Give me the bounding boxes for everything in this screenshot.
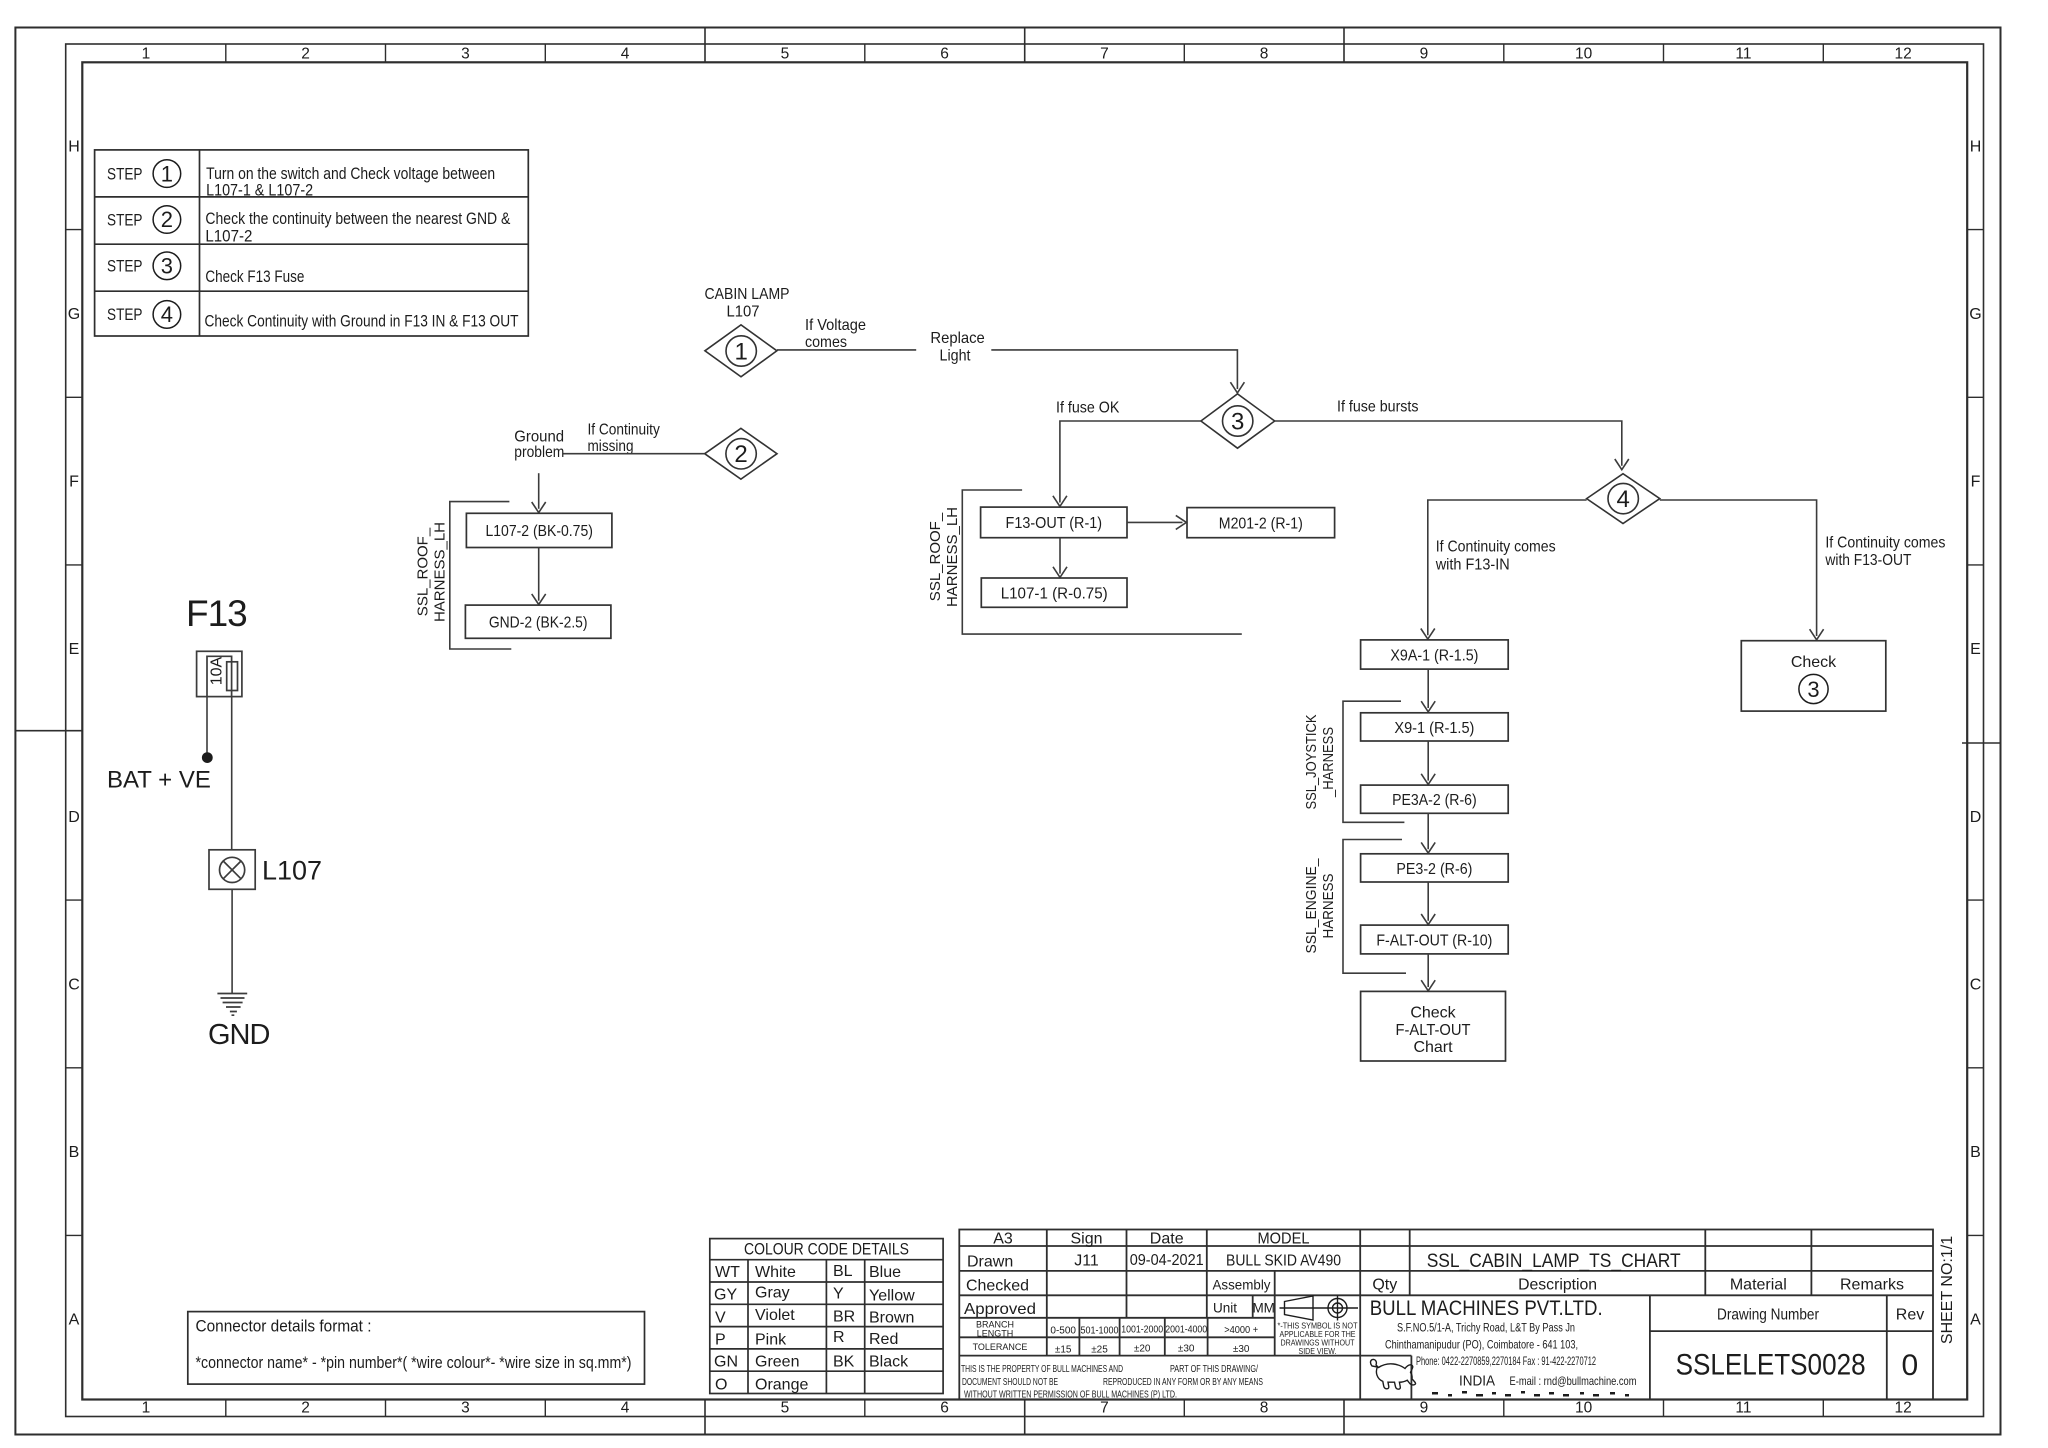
svg-text:BR: BR — [833, 1308, 855, 1325]
arrowhead into F-ALT-OUT — [1421, 914, 1435, 925]
property note text — [961, 1364, 1263, 1401]
title block header texts — [993, 1231, 1309, 1248]
arrowhead into Check box — [1810, 629, 1824, 640]
svg-text:2001-4000: 2001-4000 — [1165, 1325, 1207, 1336]
label Replace Light — [930, 330, 984, 364]
svg-text:TOLERANCE: TOLERANCE — [973, 1342, 1028, 1352]
svg-text:2: 2 — [301, 46, 310, 63]
svg-text:L107: L107 — [727, 304, 760, 321]
title block grid — [959, 1230, 1933, 1400]
step 1 description — [206, 165, 495, 199]
wire Replace Light to diamond 3 — [991, 350, 1237, 389]
svg-text:±15: ±15 — [1055, 1345, 1072, 1356]
svg-text:10: 10 — [1575, 1400, 1593, 1417]
svg-text:Description: Description — [1518, 1276, 1597, 1293]
svg-text:Check: Check — [1410, 1005, 1456, 1022]
svg-text:3: 3 — [161, 254, 173, 279]
svg-text:Assembly: Assembly — [1213, 1277, 1271, 1292]
svg-text:STEP: STEP — [107, 306, 143, 324]
harness label SSL_ROOF right — [927, 507, 961, 607]
decision diamond 2 — [705, 428, 777, 479]
svg-text:L107-2: L107-2 — [205, 228, 252, 246]
svg-text:3: 3 — [461, 46, 470, 63]
arrowhead into M201-2 — [1176, 515, 1187, 529]
svg-text:1: 1 — [142, 46, 151, 63]
connector box F-ALT-OUT — [1361, 925, 1509, 954]
svg-text:P: P — [715, 1332, 726, 1349]
svg-text:H: H — [68, 138, 80, 155]
svg-text:HARNESS_LH: HARNESS_LH — [944, 507, 961, 607]
arrowhead into GND-2 box — [532, 594, 546, 605]
svg-text:L107-1 (R-0.75): L107-1 (R-0.75) — [1001, 586, 1108, 603]
process box Check (3) — [1741, 641, 1886, 711]
svg-text:STEP: STEP — [107, 166, 143, 184]
svg-text:Green: Green — [755, 1354, 799, 1371]
branch length tolerance table — [973, 1319, 1028, 1352]
wire diamond1 to Replace Light — [777, 349, 916, 351]
svg-text:HARNESS_LH: HARNESS_LH — [432, 522, 449, 622]
svg-text:Check Continuity with Ground i: Check Continuity with Ground in F13 IN &… — [205, 313, 519, 331]
label Ground problem — [514, 429, 564, 462]
svg-text:±30: ±30 — [1233, 1344, 1250, 1355]
svg-text:J11: J11 — [1074, 1252, 1099, 1269]
svg-text:with F13-IN: with F13-IN — [1435, 556, 1510, 573]
svg-text:S.F.NO.5/1-A, Trichy Road, L&T: S.F.NO.5/1-A, Trichy Road, L&T By Pass J… — [1397, 1322, 1575, 1334]
arrowhead into F13-OUT — [1053, 496, 1067, 507]
svg-text:A: A — [1970, 1312, 1981, 1329]
svg-text:STEP: STEP — [107, 211, 143, 229]
connector details format note box — [188, 1312, 645, 1385]
fold tick mark left (E/D) — [15, 730, 82, 732]
cabin lamp title — [705, 286, 790, 321]
svg-text:3: 3 — [1231, 408, 1244, 435]
svg-text:White: White — [755, 1264, 796, 1281]
label If Continuity comes with F13-OUT — [1825, 534, 1946, 569]
svg-text:E: E — [69, 641, 80, 658]
harness bracket SSL_ENGINE — [1343, 840, 1406, 974]
svg-text:INDIA: INDIA — [1459, 1374, 1495, 1390]
svg-text:F: F — [1971, 474, 1981, 491]
svg-text:Chart: Chart — [1413, 1039, 1453, 1056]
svg-text:Unit: Unit — [1213, 1300, 1237, 1315]
svg-text:MODEL: MODEL — [1258, 1231, 1310, 1248]
svg-text:Drawn: Drawn — [967, 1253, 1013, 1270]
svg-text:If fuse bursts: If fuse bursts — [1337, 399, 1419, 416]
svg-text:X9A-1 (R-1.5): X9A-1 (R-1.5) — [1390, 647, 1478, 664]
svg-text:3: 3 — [461, 1400, 470, 1417]
qty description material remarks headers — [1372, 1276, 1904, 1293]
svg-text:0-500: 0-500 — [1050, 1326, 1076, 1337]
svg-text:G: G — [1969, 306, 1981, 323]
svg-text:DOCUMENT SHOULD NOT BE: DOCUMENT SHOULD NOT BE — [962, 1377, 1058, 1388]
wire diamond2 to Ground problem — [563, 453, 705, 455]
svg-text:PE3-2 (R-6): PE3-2 (R-6) — [1396, 861, 1472, 878]
arrowhead into Check chart box — [1421, 980, 1435, 991]
zone row dividers right band — [1967, 230, 1983, 1236]
svg-text:A: A — [69, 1312, 80, 1329]
svg-text:4: 4 — [621, 1400, 630, 1417]
svg-text:GY: GY — [714, 1287, 737, 1304]
svg-text:6: 6 — [940, 46, 949, 63]
wire diamond4 right branch down to Check box — [1660, 500, 1817, 636]
svg-text:STEP: STEP — [107, 258, 143, 276]
svg-text:GND-2 (BK-2.5): GND-2 (BK-2.5) — [489, 614, 588, 631]
svg-text:5: 5 — [781, 46, 790, 63]
svg-text:1: 1 — [142, 1400, 151, 1417]
svg-text:Pink: Pink — [755, 1332, 787, 1349]
wire F13-OUT to M201-2 — [1127, 521, 1183, 523]
svg-text:5: 5 — [781, 1400, 790, 1417]
svg-text:MM: MM — [1252, 1300, 1275, 1315]
garbled small print row — [1432, 1391, 1629, 1397]
label If Continuity missing — [588, 422, 660, 455]
svg-text:SSL_CABIN_LAMP_TS_CHART: SSL_CABIN_LAMP_TS_CHART — [1427, 1251, 1681, 1272]
svg-text:2: 2 — [301, 1400, 310, 1417]
zone numbers bottom — [142, 1400, 1912, 1417]
svg-text:09-04-2021: 09-04-2021 — [1130, 1252, 1204, 1269]
harness label SSL_JOYSTICK — [1303, 715, 1337, 810]
svg-text:12: 12 — [1894, 1400, 1911, 1417]
svg-text:2: 2 — [161, 207, 173, 232]
ground symbol — [217, 994, 247, 1016]
connector box L107-1 — [981, 578, 1127, 607]
svg-text:problem: problem — [514, 444, 564, 461]
connector box M201-2 — [1187, 508, 1335, 538]
svg-text:4: 4 — [621, 46, 630, 63]
svg-text:E: E — [1970, 641, 1981, 658]
svg-text:Drawing Number: Drawing Number — [1717, 1307, 1820, 1324]
svg-text:Check: Check — [1791, 654, 1837, 671]
step instruction table — [95, 150, 529, 336]
fold tick marks bottom — [705, 1400, 1344, 1435]
first angle projection symbol — [1280, 1296, 1359, 1321]
svg-text:Date: Date — [1150, 1231, 1184, 1248]
wire F-ALT-OUT to Check chart box — [1427, 954, 1429, 987]
wire fuse right pin down to lamp — [231, 697, 233, 850]
svg-text:Check F13 Fuse: Check F13 Fuse — [205, 268, 304, 286]
svg-text:THIS IS THE PROPERTY OF BULL M: THIS IS THE PROPERTY OF BULL MACHINES AN… — [961, 1364, 1123, 1375]
arrowhead into PE3A-2 — [1421, 774, 1435, 785]
svg-text:SSL_ROOF_: SSL_ROOF_ — [927, 512, 944, 601]
svg-text:4: 4 — [1617, 486, 1630, 513]
zone letters right — [1969, 138, 1981, 1328]
svg-text:If Voltage: If Voltage — [805, 317, 866, 334]
svg-text:>4000 +: >4000 + — [1224, 1325, 1258, 1336]
svg-text:Black: Black — [869, 1354, 909, 1371]
arrowhead into diamond 4 — [1615, 459, 1629, 470]
label If Voltage comes — [805, 317, 866, 351]
svg-text:12: 12 — [1894, 46, 1911, 63]
svg-text:Approved: Approved — [964, 1301, 1036, 1318]
svg-text:501-1000: 501-1000 — [1081, 1326, 1119, 1337]
svg-text:Material: Material — [1730, 1276, 1787, 1293]
harness bracket SSL_ROOF right — [962, 490, 1242, 634]
svg-text:If fuse OK: If fuse OK — [1056, 399, 1120, 416]
svg-text:1: 1 — [161, 161, 173, 186]
arrowhead into diamond 3 — [1230, 382, 1244, 393]
colour code entries — [714, 1263, 915, 1394]
svg-text:Yellow: Yellow — [869, 1288, 915, 1305]
svg-text:±20: ±20 — [1134, 1344, 1151, 1355]
svg-text:WT: WT — [715, 1264, 740, 1281]
decision diamond 4 — [1587, 474, 1660, 524]
wire F13-OUT down to L107-1 — [1059, 538, 1061, 574]
wire Ground problem down to L107-2 box — [538, 473, 540, 509]
connector box L107-2 — [466, 513, 612, 547]
svg-text:GND: GND — [208, 1019, 270, 1051]
svg-text:F13-OUT (R-1): F13-OUT (R-1) — [1006, 515, 1103, 532]
svg-text:Y: Y — [833, 1286, 844, 1303]
svg-text:9: 9 — [1420, 46, 1429, 63]
svg-text:8: 8 — [1260, 1400, 1269, 1417]
svg-text:Remarks: Remarks — [1840, 1276, 1904, 1293]
harness bracket SSL_JOYSTICK — [1343, 701, 1404, 822]
wire X9A-1 to X9-1 — [1427, 669, 1429, 708]
svg-text:F: F — [69, 474, 79, 491]
process box Check F-ALT-OUT Chart — [1361, 991, 1506, 1061]
svg-text:G: G — [68, 306, 80, 323]
svg-text:WITHOUT WRITTEN PERMISSION OF: WITHOUT WRITTEN PERMISSION OF BULL MACHI… — [964, 1389, 1177, 1400]
svg-text:SIDE VIEW.: SIDE VIEW. — [1299, 1346, 1337, 1356]
svg-text:BULL SKID AV490: BULL SKID AV490 — [1226, 1252, 1341, 1269]
svg-text:Gray: Gray — [755, 1285, 790, 1302]
svg-text:4: 4 — [161, 302, 173, 327]
svg-text:Sign: Sign — [1070, 1231, 1102, 1248]
wire lamp down to ground — [231, 889, 233, 993]
svg-text:SSLELETS0028: SSLELETS0028 — [1676, 1349, 1866, 1382]
svg-text:BK: BK — [833, 1354, 855, 1371]
arrowhead into X9A-1 — [1421, 629, 1435, 640]
svg-text:CABIN LAMP: CABIN LAMP — [705, 286, 790, 303]
connector box X9A-1 — [1361, 640, 1509, 669]
svg-text:Chinthamanipudur (PO), Coimbat: Chinthamanipudur (PO), Coimbatore - 641 … — [1385, 1337, 1578, 1351]
svg-text:A3: A3 — [993, 1231, 1013, 1248]
svg-text:PE3A-2 (R-6): PE3A-2 (R-6) — [1392, 792, 1477, 809]
connector box F13-OUT — [981, 507, 1127, 538]
svg-text:Check the continuity between t: Check the continuity between the nearest… — [205, 210, 510, 228]
fold tick marks top — [705, 28, 1344, 63]
label If Continuity comes with F13-IN — [1435, 539, 1556, 574]
svg-text:LENGTH: LENGTH — [977, 1328, 1014, 1338]
svg-text:SSL_ENGINE_: SSL_ENGINE_ — [1303, 858, 1320, 954]
svg-text:COLOUR CODE DETAILS: COLOUR CODE DETAILS — [744, 1241, 909, 1259]
svg-text:Blue: Blue — [869, 1264, 901, 1281]
svg-text:H: H — [1970, 138, 1982, 155]
svg-text:Light: Light — [940, 348, 971, 365]
svg-text:missing: missing — [588, 438, 634, 455]
svg-text:7: 7 — [1100, 46, 1109, 63]
wire PE3A-2 to PE3-2 — [1427, 813, 1429, 849]
svg-text:SSL_ROOF_: SSL_ROOF_ — [415, 527, 432, 616]
svg-text:2: 2 — [734, 441, 747, 468]
svg-text:M201-2 (R-1): M201-2 (R-1) — [1219, 515, 1303, 532]
arrowhead into L107-2 box — [532, 502, 546, 513]
svg-text:If Continuity comes: If Continuity comes — [1825, 534, 1945, 551]
svg-text:Connector details format :: Connector details format : — [196, 1317, 372, 1336]
arrowhead into PE3-2 — [1421, 842, 1435, 853]
svg-text:BULL MACHINES PVT.LTD.: BULL MACHINES PVT.LTD. — [1370, 1297, 1603, 1320]
wire X9-1 to PE3A-2 — [1427, 741, 1429, 781]
svg-text:C: C — [1970, 977, 1982, 994]
arrowhead into X9-1 — [1421, 701, 1435, 712]
arrowhead into L107-1 — [1053, 567, 1067, 578]
svg-text:0: 0 — [1901, 1349, 1918, 1382]
svg-text:SSL_JOYSTICK: SSL_JOYSTICK — [1303, 715, 1320, 810]
svg-text:±30: ±30 — [1178, 1344, 1195, 1355]
harness label SSL_ENGINE — [1303, 858, 1337, 954]
fold tick mark right (E/D) — [1962, 742, 2001, 744]
zone column dividers top band — [226, 44, 1824, 62]
svg-text:1: 1 — [735, 338, 748, 365]
svg-text:X9-1 (R-1.5): X9-1 (R-1.5) — [1394, 720, 1474, 737]
svg-text:L107-2 (BK-0.75): L107-2 (BK-0.75) — [485, 523, 593, 540]
svg-text:D: D — [1970, 809, 1982, 826]
bull logo — [1371, 1359, 1416, 1389]
harness label SSL_ROOF left — [415, 522, 449, 622]
decision diamond 1 — [705, 325, 777, 377]
svg-text:C: C — [68, 977, 80, 994]
step 2 description — [205, 210, 510, 246]
svg-text:10A: 10A — [209, 656, 226, 685]
svg-text:10: 10 — [1575, 46, 1593, 63]
colour code table — [710, 1239, 943, 1394]
svg-text:11: 11 — [1735, 1400, 1751, 1417]
svg-text:D: D — [68, 809, 80, 826]
svg-text:8: 8 — [1260, 46, 1269, 63]
connector box PE3-2 — [1361, 854, 1509, 882]
zone column dividers bottom band — [226, 1400, 1824, 1417]
decision diamond 3 — [1201, 394, 1275, 448]
svg-text:11: 11 — [1735, 46, 1751, 63]
svg-text:3: 3 — [1807, 677, 1819, 702]
svg-text:PART OF THIS DRAWING/: PART OF THIS DRAWING/ — [1170, 1364, 1258, 1375]
svg-text:Checked: Checked — [966, 1278, 1029, 1295]
wire diamond3 right branch down to diamond 4 — [1275, 421, 1622, 466]
svg-text:1001-2000: 1001-2000 — [1121, 1325, 1163, 1336]
svg-text:B: B — [1970, 1144, 1981, 1161]
svg-text:L107: L107 — [262, 856, 322, 886]
svg-text:BAT + VE: BAT + VE — [107, 767, 211, 794]
svg-text:9: 9 — [1420, 1400, 1429, 1417]
svg-text:REPRODUCED IN ANY FORM OR BY A: REPRODUCED IN ANY FORM OR BY ANY MEANS — [1103, 1377, 1263, 1388]
svg-text:F-ALT-OUT: F-ALT-OUT — [1396, 1022, 1471, 1039]
svg-text:HARNESS: HARNESS — [1320, 874, 1337, 939]
svg-text:F13: F13 — [186, 593, 247, 634]
svg-text:R: R — [833, 1329, 845, 1346]
svg-text:SHEET NO:1/1: SHEET NO:1/1 — [1939, 1236, 1956, 1344]
svg-text:6: 6 — [940, 1400, 949, 1417]
connector box PE3A-2 — [1361, 785, 1509, 813]
wire fuse left pin down to BAT node — [206, 697, 208, 753]
svg-text:Brown: Brown — [869, 1309, 914, 1326]
svg-text:B: B — [69, 1144, 80, 1161]
svg-text:If Continuity: If Continuity — [588, 422, 660, 439]
svg-text:BL: BL — [833, 1263, 853, 1280]
svg-text:±25: ±25 — [1091, 1345, 1108, 1356]
fuse F13 — [197, 651, 242, 696]
svg-text:Violet: Violet — [755, 1307, 795, 1324]
svg-text:Replace: Replace — [930, 330, 984, 347]
projection symbol note — [1278, 1321, 1358, 1357]
svg-text:Rev: Rev — [1896, 1307, 1924, 1324]
svg-text:*connector name* - *pin numbe: *connector name* - *pin number*( *wire c… — [196, 1353, 632, 1372]
wire L107-2 to GND-2 — [538, 548, 540, 601]
svg-text:L107-1 & L107-2: L107-1 & L107-2 — [206, 181, 313, 199]
svg-text:If Continuity comes: If Continuity comes — [1436, 539, 1556, 556]
zone letters left — [68, 138, 80, 1328]
harness bracket SSL_ROOF left — [450, 502, 512, 649]
connector box X9-1 — [1361, 713, 1509, 741]
svg-text:Ground: Ground — [514, 429, 564, 446]
svg-text:Orange: Orange — [755, 1376, 808, 1393]
lamp L107 — [209, 850, 255, 890]
connector box GND-2 — [465, 605, 611, 638]
drawn row — [967, 1252, 1341, 1271]
svg-text:with F13-OUT: with F13-OUT — [1825, 552, 1912, 569]
svg-text:F-ALT-OUT (R-10): F-ALT-OUT (R-10) — [1376, 932, 1492, 949]
svg-text:comes: comes — [805, 334, 847, 351]
svg-text:_HARNESS: _HARNESS — [1320, 727, 1337, 798]
zone numbers top — [142, 46, 1912, 63]
node BAT junction dot — [202, 752, 213, 763]
svg-text:GN: GN — [714, 1354, 738, 1371]
wire diamond4 left branch down to X9A-1 — [1428, 500, 1587, 635]
svg-text:7: 7 — [1100, 1400, 1109, 1417]
svg-text:V: V — [715, 1309, 726, 1326]
svg-text:Phone: 0422-2270859,2270184 Fa: Phone: 0422-2270859,2270184 Fax : 91-422… — [1416, 1354, 1596, 1368]
svg-text:Qty: Qty — [1372, 1276, 1397, 1293]
wire diamond3 left branch down to F13-OUT — [1060, 421, 1201, 503]
svg-text:E-mail : rnd@bullmachine.com: E-mail : rnd@bullmachine.com — [1510, 1374, 1637, 1388]
svg-text:Red: Red — [869, 1331, 898, 1348]
svg-text:O: O — [715, 1376, 727, 1393]
wire PE3-2 to F-ALT-OUT — [1427, 882, 1429, 921]
zone row dividers left band — [66, 230, 83, 1236]
